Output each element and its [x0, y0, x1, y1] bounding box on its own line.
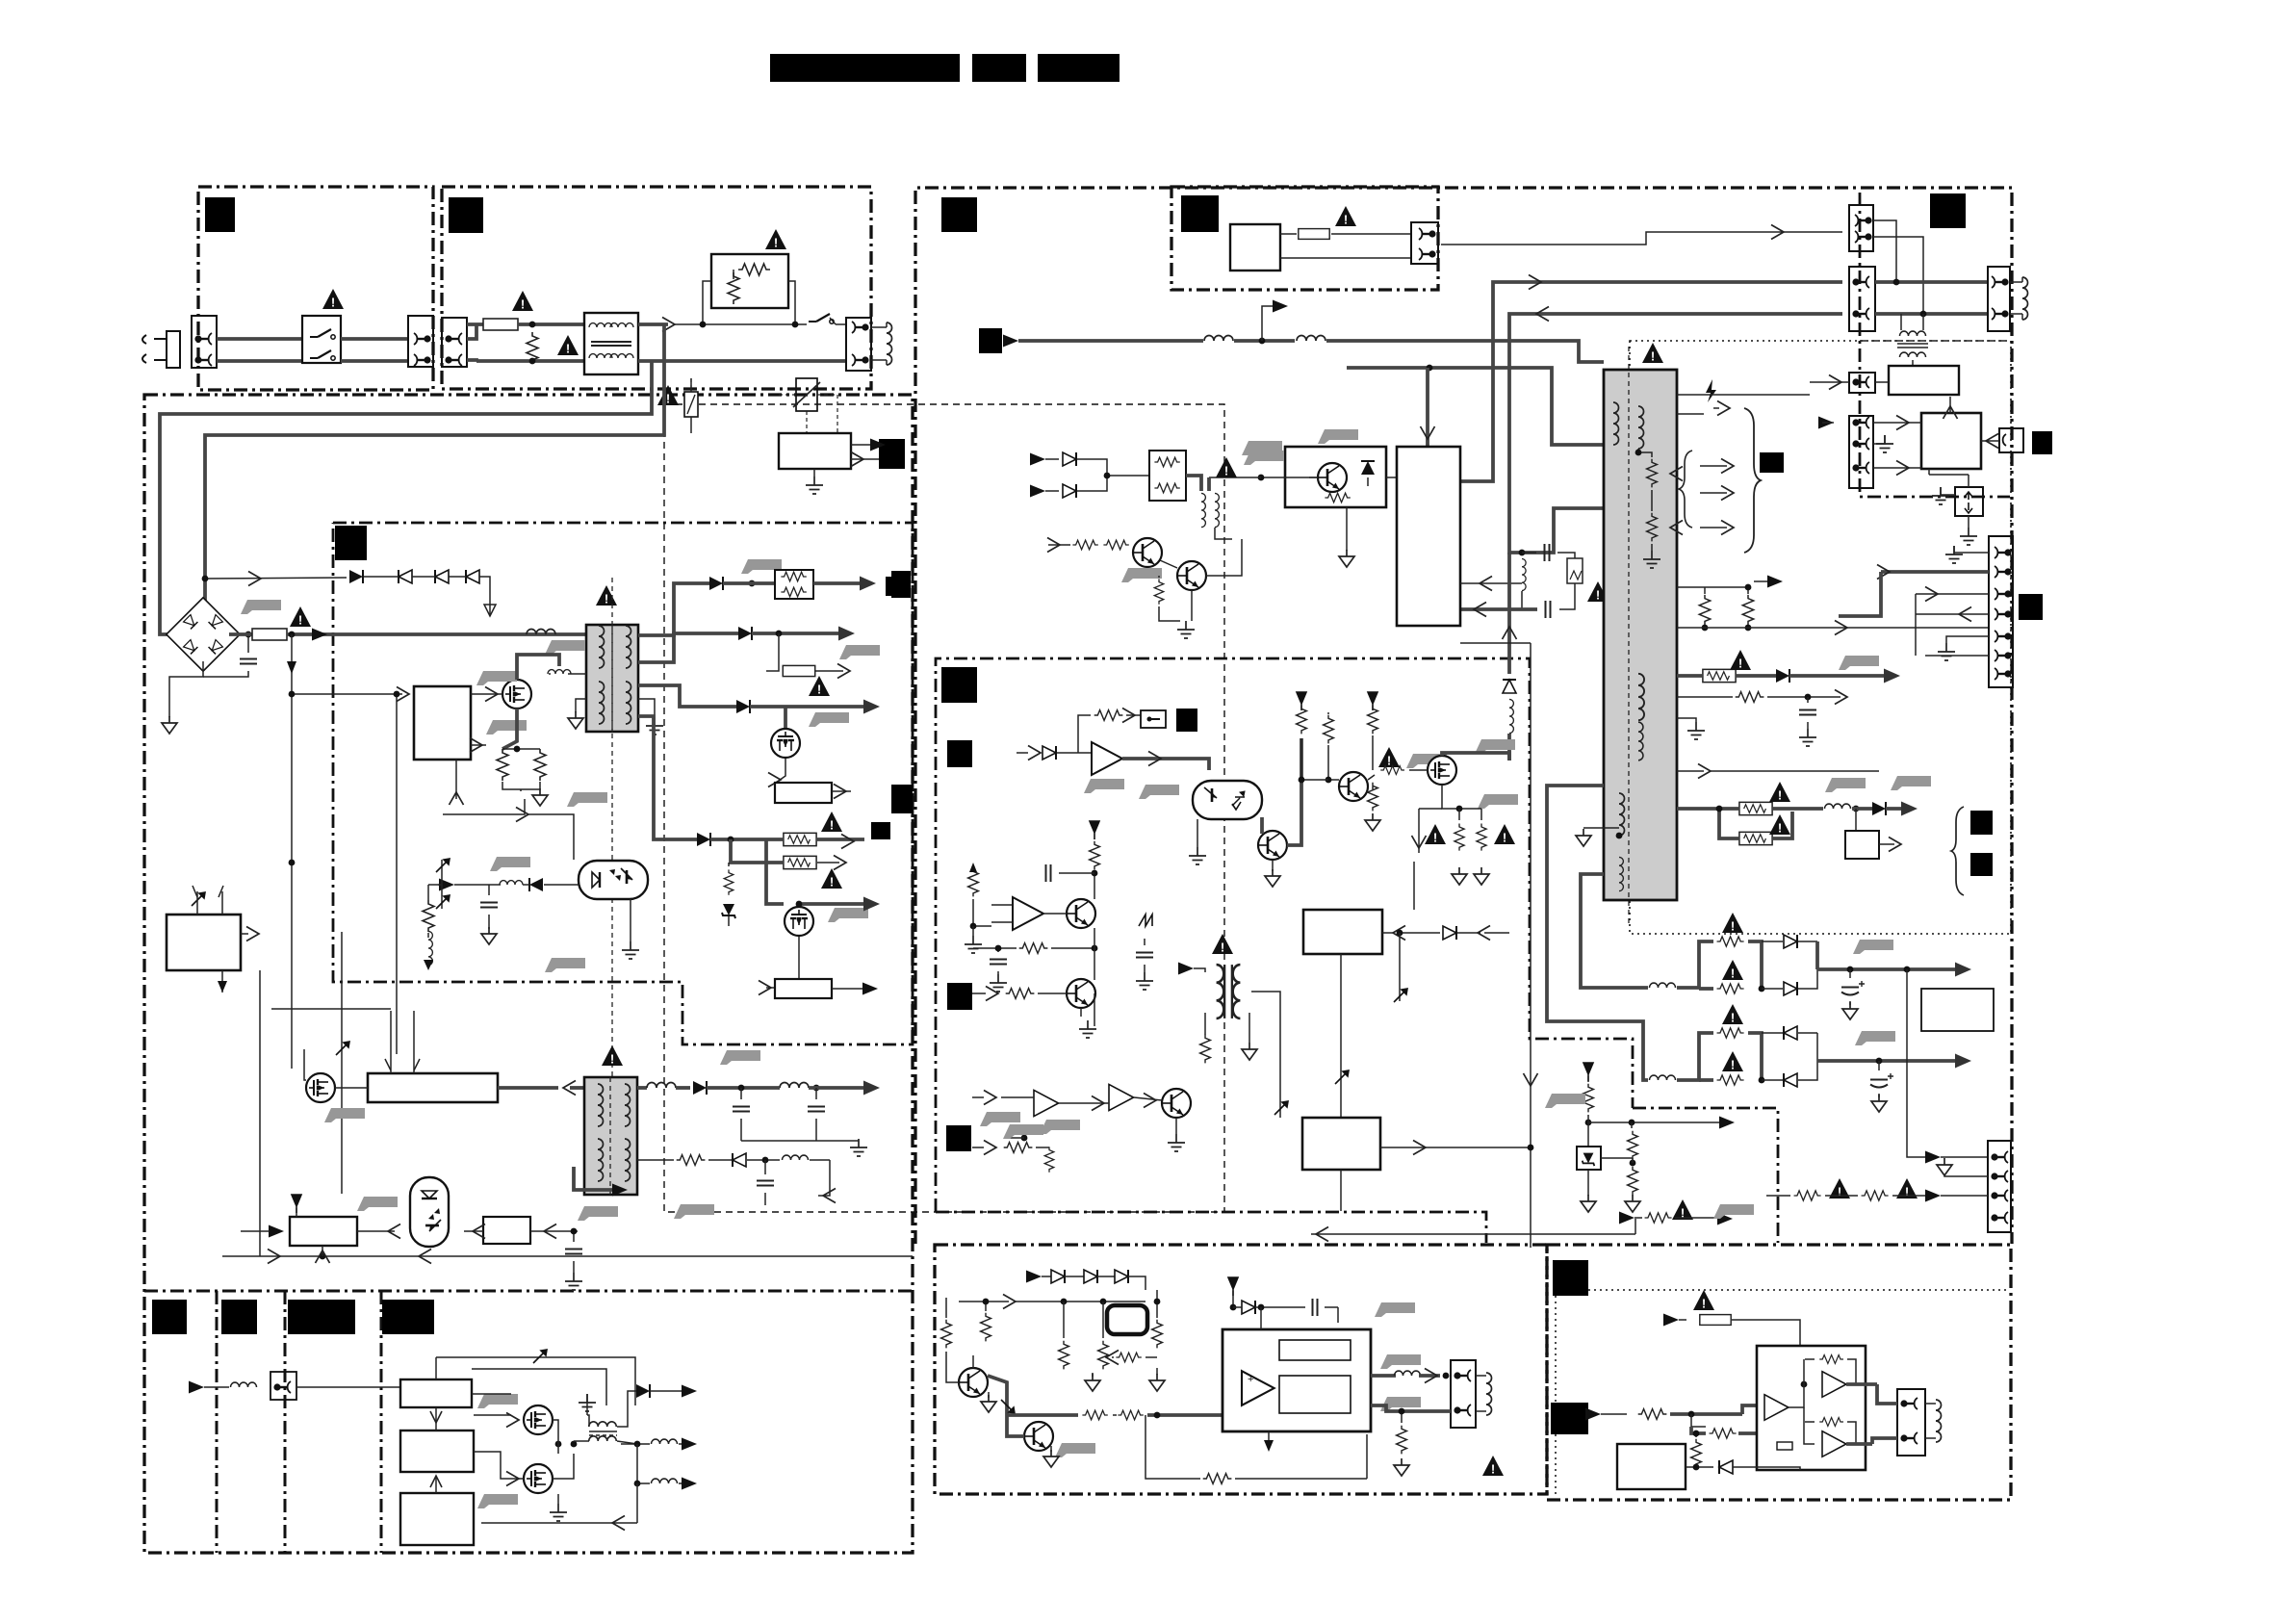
- flag Q7: [1475, 739, 1515, 754]
- wire vert out a: [1839, 572, 1881, 616]
- open gnd sense: [520, 789, 522, 791]
- inner SMPS box outline: [333, 523, 913, 1044]
- wire filter out bottom: [638, 359, 846, 363]
- wire ctrl1: [1078, 715, 1091, 753]
- res bank sup3: [1368, 692, 1377, 710]
- thick net D: [1522, 508, 1604, 553]
- fuse B+: [252, 629, 287, 640]
- transformer T2: [584, 1077, 637, 1195]
- warning B+: [290, 606, 311, 628]
- connector remote: [1411, 222, 1438, 264]
- audio fb return: [605, 1522, 637, 1524]
- reg2 arrows: [832, 988, 866, 990]
- audio2 box left: [1617, 1444, 1686, 1489]
- resistor crowbar: [1325, 493, 1350, 503]
- wire bridge out: [229, 632, 252, 636]
- wire lv to conn b: [1849, 1061, 1851, 1101]
- fb supply branch: [1583, 1063, 1593, 1081]
- audio npn2 gnd: [1050, 1446, 1052, 1452]
- mains switch: [302, 316, 341, 363]
- junction audio: [555, 1441, 562, 1448]
- gnd audio fet: [557, 1494, 559, 1504]
- connector degauss: [846, 318, 871, 371]
- res out1b: [1677, 696, 1733, 698]
- wire sec pin2: [1839, 627, 1989, 629]
- cap bridge: [247, 634, 249, 653]
- micro box: [167, 915, 241, 970]
- line filter T: [584, 313, 638, 374]
- net label 19: [1551, 1403, 1588, 1434]
- net label 17: [946, 1125, 971, 1151]
- audio2 out conn: [1897, 1389, 1925, 1456]
- title bar 1: [770, 54, 960, 82]
- wire Q1 drain: [517, 655, 559, 680]
- amp sense res: [1397, 1426, 1407, 1455]
- T2 out coil: [637, 1086, 647, 1090]
- cap fb: [488, 885, 490, 895]
- audio out coil1: [617, 1441, 637, 1444]
- wire npn to IC: [1206, 539, 1242, 576]
- gnd mute: [1094, 993, 1095, 1026]
- small box out2: [1855, 809, 1857, 831]
- fb wire top2: [472, 1369, 606, 1405]
- micro arrows in: [192, 892, 205, 906]
- standby xfmr small: [1186, 476, 1201, 491]
- flag crowbar: [1318, 429, 1358, 444]
- zener +B: [728, 863, 730, 866]
- net label 9: [941, 667, 977, 703]
- bottom-left partition 2: [284, 1291, 287, 1553]
- net label 11: [1176, 709, 1197, 732]
- audio2 in res2: [1690, 1414, 1692, 1427]
- npn mute: [1067, 979, 1095, 1008]
- fuse remote: [1280, 233, 1297, 235]
- flag b8 2: [1040, 1120, 1080, 1134]
- lv rail1 diodes: [1762, 941, 1783, 942]
- fb wire top: [436, 1357, 635, 1405]
- flags out2: [1825, 778, 1866, 792]
- flag npn2: [1121, 568, 1162, 582]
- standby rail arrow: [1003, 335, 1018, 348]
- flag out1: [1839, 656, 1879, 670]
- thick wire PWM2 right: [498, 1086, 558, 1090]
- warning posistor: [765, 229, 786, 250]
- fusible out1: [1703, 669, 1736, 682]
- npn ctrl lo: [1258, 831, 1287, 860]
- audio2 coil: [1936, 1400, 1942, 1442]
- remote receiver box outline: [1171, 187, 1438, 290]
- wire ctrl2 down: [1340, 954, 1342, 1118]
- wire out y801: [1677, 770, 1704, 772]
- degauss ctrl out arrow: [851, 444, 882, 446]
- flag lv2: [1855, 1031, 1895, 1045]
- flag Q2: [828, 908, 868, 922]
- mosfet Q6: [524, 1464, 553, 1493]
- amp fb res: [1145, 1415, 1200, 1479]
- net label 15: [886, 577, 907, 596]
- wire into IC top: [1426, 368, 1429, 447]
- net label 3: [941, 197, 977, 232]
- T4 res1: [1647, 459, 1658, 488]
- wire PWM2 to T2: [570, 1086, 584, 1090]
- deg xfmr: [1900, 314, 1902, 330]
- audio in coil: [231, 1382, 257, 1387]
- wire Q7 up: [1442, 753, 1509, 760]
- wire Q2 rail: [799, 902, 866, 906]
- audio2 wire mid: [1789, 1359, 1804, 1407]
- flag fb: [567, 792, 607, 807]
- flag T1 left: [545, 640, 585, 655]
- opto3 gnd: [1197, 819, 1198, 847]
- AC plug: [142, 331, 180, 368]
- crt supply box: [1889, 366, 1959, 395]
- yoke coil: [2022, 277, 2028, 320]
- flag b8 1: [980, 1112, 1020, 1126]
- diode sec2: [738, 627, 752, 640]
- audio vert res3: [1059, 1341, 1069, 1370]
- audio npn1: [959, 1368, 988, 1397]
- audio vert res4: [1098, 1341, 1109, 1370]
- T4 primary winding: [1613, 402, 1619, 445]
- opamp b8 1: [1034, 1090, 1059, 1116]
- IR receiver box: [1230, 224, 1280, 271]
- res row2 b8 b: [1044, 1147, 1054, 1172]
- caps T2 out: [740, 1088, 742, 1099]
- crt drive box: [1921, 413, 1981, 469]
- flag standby: [1242, 441, 1282, 455]
- cap comp: [1046, 864, 1051, 882]
- wire +B down: [766, 839, 784, 904]
- power amp inner1: [1279, 1340, 1351, 1360]
- audio res fb: [1116, 1353, 1141, 1362]
- power amp IC: [1223, 1329, 1371, 1431]
- standby rail2: [1234, 339, 1295, 343]
- arrow P5: [1818, 417, 1834, 429]
- wire +B out: [710, 838, 783, 841]
- mosfet Q2: [785, 907, 813, 936]
- comparator res: [968, 868, 979, 897]
- wire npn lo: [1287, 738, 1301, 845]
- wire fb long: [443, 799, 525, 814]
- flag opamp2: [1139, 785, 1179, 799]
- diode vert chain: [1507, 553, 1511, 674]
- gnd b8: [1175, 1118, 1177, 1134]
- coil fb: [428, 931, 432, 965]
- IC ctrl2 in: [1382, 932, 1394, 934]
- wire to degauss switch: [674, 323, 807, 325]
- connector J2: [408, 316, 433, 367]
- IC deflection: [1302, 1118, 1380, 1170]
- warning ctrl: [1378, 747, 1400, 768]
- zener box: [1577, 1147, 1601, 1170]
- IC ctrl2: [1303, 910, 1382, 954]
- flag fb2: [545, 958, 585, 972]
- wire Q2 down: [798, 937, 800, 979]
- T2 lower out: [637, 1159, 674, 1161]
- thick net C: [1347, 368, 1604, 445]
- net label 28: [382, 1300, 434, 1334]
- mosfet Q5: [524, 1405, 553, 1434]
- standby npn2: [1177, 561, 1206, 590]
- audio2 ic gnd: [1799, 1470, 1801, 1477]
- fusible out2: [1677, 807, 1738, 811]
- arrows brace: [1700, 465, 1727, 467]
- res bank sup1: [1297, 692, 1306, 710]
- net label 2: [449, 197, 483, 233]
- fb junction wire: [1585, 1120, 1592, 1126]
- amp out: [1371, 1374, 1396, 1378]
- flag amp out2: [1380, 1397, 1421, 1411]
- flag sec2: [839, 645, 880, 659]
- gnd conn out: [1954, 546, 1989, 553]
- title bar 3: [1038, 54, 1120, 82]
- net label 18: [1553, 1260, 1588, 1296]
- wire conn 617: [1916, 593, 1989, 595]
- standby diodes in: [1030, 453, 1045, 466]
- micro out wire: [241, 933, 248, 935]
- err amp box: [483, 1217, 530, 1244]
- net label 12: [891, 785, 913, 813]
- net label 6: [979, 328, 1002, 353]
- lv rail1 out: [1817, 967, 1959, 971]
- arrows between drivers: [430, 1411, 442, 1423]
- flag row2: [1003, 1124, 1043, 1139]
- amp out low: [1371, 1405, 1451, 1411]
- parallel res pair: [775, 570, 813, 599]
- wire vert out b: [1915, 594, 1917, 656]
- connector out 9pin: [1989, 536, 2013, 687]
- res npn2: [1154, 579, 1164, 604]
- arrow diode ctrl: [1028, 746, 1041, 760]
- brace small: [1679, 451, 1692, 528]
- thick stub fb: [574, 1167, 616, 1190]
- lv rail2 coil: [1547, 786, 1648, 1080]
- wire P4: [1810, 381, 1849, 383]
- bottom-left partition 3: [380, 1291, 383, 1553]
- connector P1: [1849, 205, 1873, 251]
- audio gnd mid: [1085, 1374, 1100, 1391]
- flag T2 out: [720, 1050, 760, 1065]
- brace big: [1744, 408, 1761, 553]
- wire defl out: [1380, 1147, 1531, 1148]
- fusible +B b: [784, 856, 816, 868]
- wire sec4 +B: [638, 716, 697, 839]
- diode D1: [349, 570, 363, 583]
- wire N: [217, 359, 302, 363]
- net label 13: [335, 526, 367, 560]
- fb divider: [1628, 1131, 1638, 1160]
- T4 core dash: [1628, 347, 1630, 924]
- wire B+ down: [291, 634, 293, 1069]
- net label 26: [221, 1300, 257, 1334]
- arrow T2 out: [863, 1081, 880, 1096]
- gnd P5: [1873, 435, 1885, 444]
- mute arrow: [986, 987, 998, 1001]
- warning snubber: [1587, 581, 1609, 603]
- T2 lower caps: [762, 1157, 769, 1164]
- arrow filter out: [662, 318, 675, 332]
- npn ctrl hi: [1339, 772, 1368, 801]
- flag npn2 audio: [1055, 1443, 1095, 1457]
- flag opamp: [1084, 779, 1124, 793]
- wire L: [217, 337, 302, 341]
- T4 gnd: [1651, 544, 1653, 551]
- cap lv1: [1849, 969, 1851, 978]
- flag driver A: [477, 1394, 518, 1408]
- degauss coil: [887, 322, 892, 365]
- amp boot diode: [1242, 1301, 1255, 1314]
- arrows into PWM2: [385, 1059, 420, 1070]
- primary chassis box outline: [144, 395, 913, 1553]
- wire box up: [1949, 397, 1951, 413]
- net label 21: [1970, 853, 1993, 876]
- snubber: [1519, 550, 1526, 556]
- arrow sec3 out: [863, 700, 880, 714]
- audio2 in res: [1585, 1408, 1601, 1421]
- bridge rectifier: [167, 598, 240, 671]
- cap comp2: [1136, 953, 1153, 958]
- wire IC1 fb: [471, 744, 486, 746]
- wire crossing top pwm2: [271, 1008, 391, 1010]
- flag driver C: [477, 1494, 518, 1508]
- driver box B: [400, 1431, 474, 1472]
- warning mains switch: [322, 289, 344, 310]
- net label 1: [205, 197, 235, 232]
- wire B+ rail2: [527, 632, 586, 636]
- opamp comp: [1013, 897, 1043, 930]
- wire sec2 out: [752, 632, 843, 635]
- wire +B b: [731, 839, 783, 863]
- xfmr audio: [589, 1422, 617, 1427]
- mosfet Q4: [306, 1073, 335, 1102]
- diode D2: [399, 570, 412, 583]
- audio2 innerbox: [1777, 1442, 1792, 1450]
- cap comp3: [990, 960, 1007, 965]
- wire P5 b: [1873, 467, 1912, 469]
- wire ctrl2 down2: [1399, 933, 1401, 1001]
- connector J3: [442, 318, 467, 367]
- gnd opto: [630, 899, 631, 941]
- res divider low: [1368, 783, 1378, 812]
- transformer T4: [1604, 370, 1677, 900]
- resistor fb: [423, 900, 434, 932]
- wire P2 cross: [1875, 280, 1988, 284]
- transformer T1: [586, 625, 638, 732]
- coil B+ choke: [527, 630, 555, 635]
- warning T4: [1642, 343, 1663, 364]
- thick net B: [1509, 314, 1842, 553]
- driver box C: [400, 1493, 474, 1545]
- wire comp: [973, 899, 991, 926]
- standby rail3: [1326, 341, 1604, 362]
- VDR: [527, 332, 538, 364]
- crt sym: [1107, 1305, 1147, 1334]
- wire IC1-gate: [471, 693, 502, 695]
- connector J1: [192, 316, 217, 368]
- wire sec2: [638, 633, 738, 662]
- arrow up IC1: [455, 760, 457, 799]
- standby dashed box: [664, 404, 1224, 1212]
- res comp sup: [1090, 821, 1099, 839]
- res comp2: [1019, 943, 1048, 954]
- PWM2 IC box: [368, 1073, 498, 1102]
- bottom-right box outline: [1547, 1245, 2011, 1500]
- arrow heater: [1700, 527, 1727, 528]
- warning degauss: [657, 385, 679, 406]
- junction fb: [439, 882, 446, 889]
- net label 4: [1181, 195, 1219, 232]
- control sub-box outline: [936, 658, 1633, 1212]
- gnd npn lo: [1272, 860, 1274, 871]
- warning T3: [1212, 934, 1233, 955]
- protection transistor box: [1285, 447, 1386, 507]
- TL431 box: [290, 1217, 357, 1246]
- audio in conn: [270, 1372, 296, 1400]
- output dotted box: [1630, 341, 2011, 934]
- audio2 diode: [1686, 1466, 1713, 1468]
- diode sec1: [709, 577, 723, 590]
- svg-text:+: +: [1248, 1374, 1253, 1385]
- standby coil1: [1204, 336, 1233, 342]
- res ctrl1: [1094, 710, 1123, 721]
- flag lv1: [1853, 940, 1893, 954]
- audio2 in wire: [1723, 1412, 1742, 1416]
- posistor relay sym: [796, 378, 817, 411]
- audio2 out wires: [1846, 1382, 1877, 1386]
- defl vertical: [1460, 642, 1531, 644]
- connector P7: [1988, 1141, 2011, 1232]
- wire T3 right: [1251, 992, 1280, 1118]
- optocoupler IC3: [410, 1177, 449, 1247]
- wire Q1 source: [502, 709, 517, 749]
- wire remote2: [1280, 257, 1411, 259]
- bottom-left sub box top edge: [144, 1290, 913, 1293]
- cap lv2: [1878, 1061, 1880, 1070]
- sawtooth sym: [1139, 915, 1152, 926]
- warning T1 low: [602, 1045, 623, 1067]
- standby coil2: [1297, 336, 1326, 342]
- transformer T3: [1217, 965, 1241, 1018]
- thin wire top right: [1441, 232, 1842, 245]
- diode string feed: [205, 578, 347, 579]
- flag TL431: [357, 1197, 398, 1211]
- IC standby ctrl: [1397, 447, 1460, 626]
- net label 10: [947, 740, 972, 767]
- res bank 2: [1324, 715, 1334, 744]
- fuse F1: [483, 319, 518, 330]
- audio2 res v: [1691, 1439, 1702, 1468]
- flag T2 low: [674, 1204, 714, 1219]
- standby rail: [1018, 339, 1203, 343]
- speaker coil: [1486, 1373, 1492, 1415]
- diode opto: [529, 878, 543, 891]
- posistor box: [711, 254, 788, 308]
- arrow TL431: [269, 1225, 284, 1238]
- wire bridge minus: [169, 661, 203, 717]
- flag opto1: [490, 857, 530, 871]
- wire AC drop 2: [160, 361, 652, 634]
- T4 arrows: [1670, 467, 1683, 481]
- wire fuse-filter: [518, 322, 584, 326]
- T2 out coil2: [780, 1083, 809, 1089]
- standby stub up: [1262, 306, 1280, 341]
- audio2 IC: [1757, 1346, 1866, 1470]
- lv rail1 res pair: [1677, 941, 1713, 988]
- warning T1: [596, 585, 617, 606]
- audio arrow top: [959, 1301, 1009, 1302]
- wire P5 a: [1873, 422, 1912, 424]
- wire P4b: [1677, 394, 1810, 396]
